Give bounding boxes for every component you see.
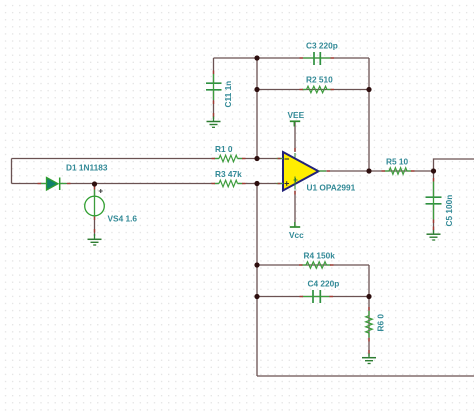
wire C5 top lead [433, 171, 435, 197]
wire R1 to op-amp - input [238, 158, 284, 160]
ground (VS4) [88, 234, 102, 245]
wire D1 cathode to R3 [60, 183, 219, 185]
junction output/C5 node [431, 168, 436, 173]
op-amp U1 [277, 152, 327, 191]
wire C4 row [257, 296, 369, 298]
capacitor C11 [206, 83, 222, 90]
junction R2 right node [366, 87, 371, 92]
junction op-amp output node [366, 168, 371, 173]
wire output row [319, 170, 434, 172]
wire left vertical [11, 159, 13, 184]
wire Vcc stem [294, 191, 296, 227]
pin connection marks [38, 58, 434, 354]
capacitor C5 [426, 197, 442, 204]
resistor R5 [389, 168, 407, 175]
svg-text:VEE: VEE [288, 110, 305, 120]
junction R4 left node [254, 262, 259, 267]
svg-text:D1 1N1183: D1 1N1183 [66, 163, 108, 173]
svg-text:R2 510: R2 510 [306, 75, 333, 85]
wire bottom row exit [257, 375, 474, 377]
wire VEE stem [294, 122, 296, 152]
junction non-inverting input node [254, 181, 259, 186]
wire C11 bottom to ground [213, 90, 215, 119]
voltage source VS4 [85, 189, 105, 217]
capacitor C4 [313, 290, 320, 303]
resistor R6 [366, 316, 373, 334]
svg-text:C5 100n: C5 100n [444, 195, 454, 227]
junction C4/R6 node [366, 294, 371, 299]
svg-text:C11 1n: C11 1n [223, 81, 233, 108]
power Vcc [290, 222, 300, 227]
svg-text:R4 150k: R4 150k [304, 251, 336, 261]
wire C5 bottom to ground [433, 204, 435, 233]
resistor R1 [219, 155, 238, 162]
wire feedback vertical left [256, 58, 258, 159]
wire C11 top lead [213, 58, 215, 83]
wire + input vertical down [256, 184, 258, 377]
resistor R3 [219, 180, 238, 187]
svg-text:R1 0: R1 0 [215, 144, 233, 154]
power VEE [290, 121, 300, 126]
junction C11/C3 top node [254, 55, 259, 60]
capacitor C3 [314, 52, 320, 65]
svg-text:C4 220p: C4 220p [308, 279, 340, 289]
wire R4 right down [368, 265, 370, 297]
ground (C11) [207, 116, 221, 127]
svg-text:VS4 1.6: VS4 1.6 [108, 214, 138, 224]
svg-text:C3 220p: C3 220p [306, 41, 338, 51]
ground (C5) [427, 230, 441, 241]
wire R2 row [257, 89, 369, 91]
wire R4 row [257, 264, 369, 266]
svg-text:R3 47k: R3 47k [215, 169, 242, 179]
wire VS4 bottom to ground [94, 216, 96, 236]
svg-text:R6 0: R6 0 [376, 314, 386, 332]
resistor R4 [306, 262, 327, 269]
junction VS4 top node [92, 181, 97, 186]
wire R3 to op-amp + input [238, 183, 284, 185]
wire top row C3 [214, 57, 370, 59]
ground (R6) [362, 353, 376, 364]
wire VS4 top [94, 184, 96, 196]
svg-text:Vcc: Vcc [289, 230, 304, 240]
svg-text:U1 OPA2991: U1 OPA2991 [307, 183, 356, 193]
junction R2 left node [254, 87, 259, 92]
resistor R2 [307, 86, 328, 93]
wire to D1 anode [12, 183, 47, 185]
wire R6 column [368, 297, 370, 357]
wire feedback vertical right [368, 58, 370, 171]
diode D1 [41, 178, 67, 191]
junction C4 left node [254, 294, 259, 299]
wire output exit right [434, 159, 474, 171]
svg-text:R5 10: R5 10 [386, 157, 409, 167]
junction inverting input node [254, 156, 259, 161]
wire left loop top [12, 158, 220, 160]
